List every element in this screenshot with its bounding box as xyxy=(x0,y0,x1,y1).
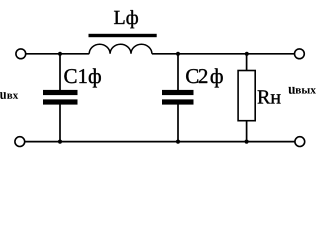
resistor value label Rн xyxy=(258,90,281,103)
output terminal top-right xyxy=(295,49,305,59)
capacitor C1 plates xyxy=(43,90,78,95)
wire C1 branch upper xyxy=(59,54,61,91)
wire Rн branch lower xyxy=(246,121,248,142)
input terminal top-left xyxy=(16,49,26,59)
node junction dot bottom C1 xyxy=(58,140,62,144)
wire C2 branch upper xyxy=(177,54,179,91)
wire C2 branch lower xyxy=(177,104,179,142)
inductor value label Lф xyxy=(114,10,138,28)
capacitor C2 plates xyxy=(162,90,194,95)
output terminal bottom-right xyxy=(295,137,305,147)
capacitor C2 value label C2 ф xyxy=(186,68,223,87)
input terminal bottom-left xyxy=(15,137,25,147)
wire Rн branch upper xyxy=(246,54,248,71)
inductor Lф core bar xyxy=(89,34,157,37)
node junction dot bottom Rн xyxy=(245,140,249,144)
capacitor C1 value label C1ф xyxy=(64,68,100,87)
inductor Lф coil xyxy=(89,44,152,54)
node junction dot top C1 xyxy=(58,52,62,56)
resistor Rн body xyxy=(238,71,255,121)
input voltage label uвх xyxy=(0,92,18,99)
wire top rail left segment xyxy=(26,53,89,55)
output voltage label uвых xyxy=(288,87,316,94)
node junction dot bottom C2 xyxy=(176,140,180,144)
node junction dot top C2 xyxy=(176,52,180,56)
node junction dot top Rн xyxy=(245,52,249,56)
wire bottom rail xyxy=(25,141,295,143)
wire top rail right segment xyxy=(152,53,295,55)
wire C1 branch lower xyxy=(59,104,61,142)
